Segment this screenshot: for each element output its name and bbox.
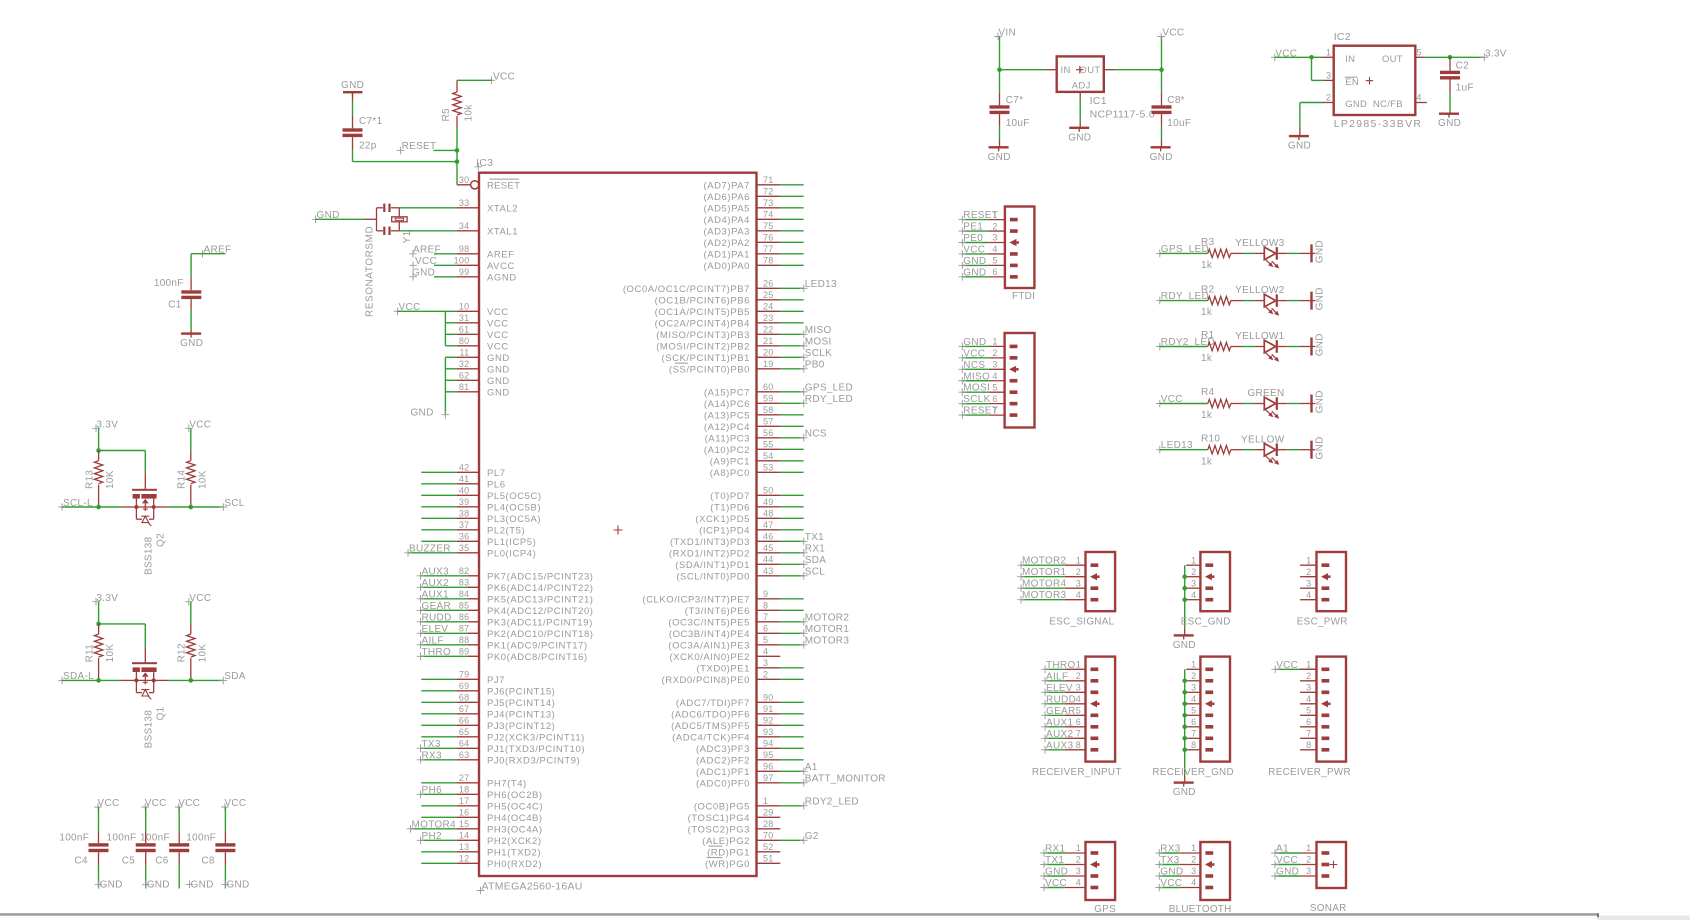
wire — [780, 724, 803, 726]
svg-text:VCC: VCC — [1276, 660, 1298, 671]
svg-text:IC1: IC1 — [1090, 95, 1107, 107]
node GEAR label and wire — [417, 601, 468, 614]
svg-text:PH7(T4): PH7(T4) — [487, 779, 527, 790]
junction — [1159, 67, 1164, 72]
svg-text:(RD)PG1: (RD)PG1 — [707, 848, 750, 859]
RECEIVER_PWR pin 2 — [1300, 671, 1329, 683]
svg-text:44: 44 — [763, 554, 774, 564]
connector ESC_PWR box — [1317, 552, 1347, 611]
svg-text:RESET: RESET — [963, 210, 998, 221]
svg-text:MOSI: MOSI — [805, 337, 832, 348]
svg-text:MOTOR4: MOTOR4 — [1022, 579, 1067, 590]
svg-text:(ADC1)PF1: (ADC1)PF1 — [696, 767, 750, 778]
FTDI pin 2 — [988, 221, 1018, 233]
svg-text:GEAR: GEAR — [1046, 706, 1076, 717]
wire — [1278, 346, 1300, 348]
svg-text:67: 67 — [459, 704, 470, 714]
svg-text:3: 3 — [992, 233, 997, 243]
svg-text:6: 6 — [1191, 717, 1196, 727]
svg-text:(ADC7/TDI)PF7: (ADC7/TDI)PF7 — [676, 698, 750, 709]
svg-text:4: 4 — [1191, 694, 1196, 704]
svg-text:Y1: Y1 — [402, 231, 413, 244]
resistor R 10K right — [177, 451, 209, 508]
svg-text:PL2(T5): PL2(T5) — [487, 526, 525, 537]
wire — [421, 494, 456, 496]
RECEIVER_PWR pin 6 — [1300, 717, 1329, 729]
svg-text:100: 100 — [454, 255, 470, 265]
wire VIN down — [999, 37, 1001, 70]
wire R5 to pin 30 — [456, 127, 458, 185]
svg-text:5: 5 — [1306, 706, 1311, 716]
svg-text:1: 1 — [1306, 660, 1311, 670]
svg-text:20: 20 — [763, 347, 774, 357]
svg-text:PK1(ADC9/PCINT17): PK1(ADC9/PCINT17) — [487, 641, 588, 652]
svg-text:GND: GND — [963, 337, 986, 348]
power VCC (top, R5) — [488, 72, 515, 85]
svg-text:30: 30 — [459, 175, 470, 185]
IC3 pin 94 (ADC3)PF3 — [696, 738, 780, 755]
svg-text:C7*1: C7*1 — [359, 116, 383, 127]
svg-text:32: 32 — [459, 359, 470, 369]
RECEIVER_INPUT pin 4 — [1065, 694, 1100, 707]
svg-text:4: 4 — [992, 244, 997, 254]
node VCC label and wire — [1271, 660, 1317, 673]
wire — [780, 230, 803, 232]
resistor R 10K left — [84, 451, 116, 508]
power VCC (C6) — [175, 798, 200, 811]
svg-text:C2: C2 — [1456, 60, 1470, 71]
capacitor C8* 10uF — [1152, 70, 1192, 129]
svg-text:4: 4 — [992, 371, 997, 381]
ground GND label (resonator) — [312, 210, 365, 223]
wire — [1278, 449, 1300, 451]
IC3 origin cross — [614, 526, 623, 535]
svg-text:45: 45 — [763, 543, 774, 553]
svg-text:PK0(ADC8/PCINT16): PK0(ADC8/PCINT16) — [487, 652, 588, 663]
svg-text:PK6(ADC14/PCINT22): PK6(ADC14/PCINT22) — [487, 583, 594, 594]
wire — [780, 713, 803, 715]
svg-text:5: 5 — [1191, 706, 1196, 716]
svg-text:10uF: 10uF — [1167, 118, 1191, 129]
svg-text:1k: 1k — [1201, 353, 1213, 364]
GPS pin 3 — [1065, 866, 1098, 878]
IC3 pin 89 PK0(ADC8/PCINT16) — [459, 646, 588, 663]
svg-text:SCL: SCL — [805, 567, 825, 578]
svg-text:1: 1 — [1076, 660, 1081, 670]
svg-text:PL4(OC5B): PL4(OC5B) — [487, 503, 541, 514]
svg-text:80: 80 — [459, 336, 470, 346]
wire — [780, 264, 803, 266]
wire cap to GND — [224, 852, 226, 888]
IC3 pin 85 PK4(ADC12/PCINT20) — [459, 600, 594, 617]
BLUETOOTH pin 1 — [1180, 843, 1213, 855]
svg-text:19: 19 — [763, 359, 774, 369]
svg-text:(SDA/INT1)PD1: (SDA/INT1)PD1 — [675, 560, 750, 571]
IC3 pin 12 PH0(RXD2) — [456, 853, 542, 870]
IC3 pin 90 (ADC7/TDI)PF7 — [676, 692, 780, 709]
IC3 pin 87 PK2(ADC10/PCINT18) — [459, 623, 594, 640]
LED YELLOW3 — [1235, 238, 1284, 269]
RECEIVER_INPUT pin 6 — [1065, 717, 1098, 729]
IC3 pin 99 AGND — [456, 267, 516, 284]
svg-text:PH6(OC2B): PH6(OC2B) — [487, 790, 543, 801]
svg-text:RESET: RESET — [487, 181, 520, 192]
wire mosfet to right — [154, 679, 191, 681]
IC2 pin 4 NC/FB stub — [1415, 93, 1427, 103]
svg-text:RX3: RX3 — [422, 751, 442, 762]
svg-text:IN: IN — [1345, 54, 1355, 65]
svg-text:(A13)PC5: (A13)PC5 — [704, 411, 750, 422]
connector SONAR box — [1317, 842, 1347, 888]
svg-text:(TOSC2)PG3: (TOSC2)PG3 — [688, 825, 750, 836]
svg-text:R2: R2 — [1201, 284, 1215, 295]
svg-text:16: 16 — [459, 807, 470, 817]
IC3 pin 65 PJ2(XCK3/PCINT11) — [456, 727, 585, 744]
ground GND (ESC_GND) — [1173, 628, 1196, 651]
svg-text:GND: GND — [487, 353, 510, 364]
svg-text:100nF: 100nF — [154, 278, 184, 289]
svg-text:2: 2 — [1191, 567, 1196, 577]
IC3 pin 42 PL7 — [456, 462, 505, 479]
RECEIVER_INPUT name label — [1032, 767, 1122, 778]
junction — [189, 505, 194, 510]
resistor R5 10k — [441, 92, 475, 127]
node RUDD label and wire — [417, 613, 468, 626]
wire — [352, 93, 354, 128]
svg-text:(A12)PC4: (A12)PC4 — [704, 422, 750, 433]
node AUX1 label and wire — [417, 590, 468, 603]
resistor R3 1k — [1201, 237, 1243, 271]
ground GND (rotated) — [1300, 333, 1326, 356]
svg-text:82: 82 — [459, 566, 470, 576]
IC3 pin 79 PJ7 — [456, 669, 505, 686]
svg-text:RUDD: RUDD — [1046, 694, 1076, 705]
svg-text:PL0(ICP4): PL0(ICP4) — [487, 549, 536, 560]
wire RECEIVER_GND ground bus — [1182, 669, 1187, 775]
node MOTOR3 label and wire — [1017, 590, 1066, 603]
svg-text:81: 81 — [459, 382, 470, 392]
IC3 pin 56 (A11)PC3 — [705, 428, 781, 445]
svg-text:YELLOW3: YELLOW3 — [1235, 238, 1284, 249]
svg-text:10K: 10K — [105, 644, 116, 663]
svg-text:(OC3A/AIN1)PE3: (OC3A/AIN1)PE3 — [668, 641, 750, 652]
svg-text:25: 25 — [763, 290, 774, 300]
RECEIVER_PWR pin 3 — [1300, 683, 1329, 695]
svg-text:MOSI: MOSI — [963, 383, 990, 394]
wire — [421, 678, 456, 680]
wire — [780, 494, 803, 496]
svg-text:92: 92 — [763, 715, 774, 725]
svg-text:R14: R14 — [177, 470, 188, 489]
svg-text:(TXD0)PE1: (TXD0)PE1 — [696, 664, 750, 675]
node TX3 label and wire — [417, 739, 457, 752]
node ELEV label and wire — [417, 624, 468, 637]
svg-text:2: 2 — [1191, 855, 1196, 865]
svg-text:7: 7 — [763, 612, 768, 622]
IC2 pin number 3 — [1326, 71, 1331, 81]
svg-text:(OC1B/PCINT6)PB6: (OC1B/PCINT6)PB6 — [655, 296, 750, 307]
svg-text:AILF: AILF — [422, 636, 444, 647]
ground GND (C2) — [1438, 113, 1461, 130]
IC3 pin 29 (TOSC1)PG4 — [688, 807, 781, 824]
GPS name label — [1094, 904, 1116, 915]
ESC_PWR pin 3 — [1300, 578, 1329, 590]
wire — [421, 483, 456, 485]
svg-text:13: 13 — [459, 842, 470, 852]
ESC_SIGNAL name label — [1049, 616, 1114, 627]
svg-text:100nF: 100nF — [59, 833, 89, 844]
svg-text:68: 68 — [459, 692, 470, 702]
connector RECEIVER_INPUT box — [1086, 657, 1116, 762]
svg-text:(AD7)PA7: (AD7)PA7 — [704, 181, 750, 192]
svg-text:VCC: VCC — [1276, 855, 1298, 866]
wire IC1 OUT to VCC — [1104, 69, 1162, 71]
svg-text:GND: GND — [412, 268, 435, 279]
svg-text:AREF: AREF — [487, 250, 515, 261]
IC3 pin 57 (A12)PC4 — [704, 416, 780, 433]
svg-text:6: 6 — [992, 267, 997, 277]
resistor R 10K right — [177, 624, 209, 681]
svg-text:83: 83 — [459, 577, 470, 587]
connector RECEIVER_PWR box — [1317, 657, 1347, 762]
svg-text:VCC: VCC — [189, 593, 211, 604]
node RESET label and wire — [397, 141, 457, 154]
svg-text:YELLOW: YELLOW — [1241, 434, 1285, 445]
svg-text:NC/FB: NC/FB — [1373, 99, 1403, 110]
svg-text:76: 76 — [763, 232, 774, 242]
svg-text:C6: C6 — [155, 856, 169, 867]
svg-text:GND: GND — [1345, 99, 1367, 110]
connector ESC_SIGNAL box — [1086, 552, 1116, 611]
svg-text:IN: IN — [1061, 65, 1071, 76]
svg-text:53: 53 — [763, 462, 774, 472]
wire VCC to IC2 EN pin 3 — [1312, 57, 1334, 80]
node SCLK label and wire — [780, 348, 832, 361]
power VCC (C8) — [221, 798, 246, 811]
svg-text:2: 2 — [992, 221, 997, 231]
IC3 pin 33 XTAL2 — [456, 198, 518, 215]
GPS pin 2 — [1065, 855, 1100, 868]
svg-text:1: 1 — [1191, 843, 1196, 853]
svg-text:4: 4 — [1306, 590, 1311, 600]
header pin 5 — [989, 382, 1018, 394]
svg-text:AUX3: AUX3 — [422, 567, 449, 578]
svg-text:(ADC0)PF0: (ADC0)PF0 — [696, 779, 750, 790]
svg-text:FTDI: FTDI — [1012, 291, 1035, 302]
svg-text:(AD4)PA4: (AD4)PA4 — [704, 215, 750, 226]
svg-text:MOTOR3: MOTOR3 — [1022, 590, 1067, 601]
svg-text:31: 31 — [459, 313, 470, 323]
IC3 pin 55 (A10)PC2 — [704, 439, 780, 456]
svg-text:37: 37 — [459, 520, 470, 530]
svg-text:2: 2 — [1076, 671, 1081, 681]
resistor R2 1k — [1201, 284, 1243, 318]
svg-text:GND: GND — [988, 152, 1011, 163]
svg-text:GND: GND — [487, 376, 510, 387]
svg-text:(MISO/PCINT3)PB3: (MISO/PCINT3)PB3 — [656, 330, 750, 341]
wire — [780, 517, 803, 519]
svg-text:7: 7 — [1306, 729, 1311, 739]
svg-text:GND: GND — [226, 880, 249, 891]
svg-text:10K: 10K — [197, 470, 208, 489]
svg-text:4: 4 — [1191, 590, 1196, 600]
svg-text:3.3V: 3.3V — [1485, 48, 1507, 59]
svg-text:PE1: PE1 — [963, 222, 983, 233]
node RESET label and wire — [959, 210, 999, 223]
wire — [780, 460, 803, 462]
svg-text:6: 6 — [1076, 717, 1081, 727]
svg-text:SCL: SCL — [224, 498, 244, 509]
node LED13 label and wire — [780, 279, 837, 292]
ground GND (IC2) — [1288, 135, 1311, 152]
header pin 2 — [989, 348, 1018, 360]
svg-text:56: 56 — [763, 428, 774, 438]
node GND label and wire — [1271, 867, 1300, 880]
svg-text:(AD1)PA1: (AD1)PA1 — [704, 250, 750, 261]
svg-text:63: 63 — [459, 750, 470, 760]
IC3 pin 62 GND — [456, 370, 509, 387]
RECEIVER_GND pin 5 — [1186, 706, 1213, 718]
wire — [1243, 449, 1255, 451]
svg-text:VCC: VCC — [963, 348, 985, 359]
svg-text:Q2: Q2 — [156, 533, 167, 547]
svg-text:15: 15 — [459, 819, 470, 829]
svg-text:(ICP1)PD4: (ICP1)PD4 — [699, 526, 750, 537]
svg-text:PH6: PH6 — [422, 785, 442, 796]
svg-text:(SCK/PCINT1)PB1: (SCK/PCINT1)PB1 — [662, 353, 751, 364]
svg-text:70: 70 — [763, 830, 774, 840]
svg-text:GND: GND — [963, 256, 986, 267]
svg-text:TX3: TX3 — [422, 739, 441, 750]
power VCC (IC3 supply bus) — [394, 302, 421, 315]
RECEIVER_PWR pin 4 — [1300, 694, 1330, 707]
svg-text:RX3: RX3 — [1160, 844, 1180, 855]
svg-text:(T3/INT6)PE6: (T3/INT6)PE6 — [685, 606, 750, 617]
RECEIVER_INPUT pin 7 — [1065, 729, 1098, 741]
svg-text:PJ3(PCINT12): PJ3(PCINT12) — [487, 721, 555, 732]
svg-text:RESET: RESET — [963, 406, 998, 417]
svg-text:3: 3 — [1306, 578, 1311, 588]
IC3 pin 25 (OC1B/PCINT6)PB6 — [655, 290, 781, 307]
wire resonator to XTAL2 — [399, 207, 456, 209]
svg-text:PK5(ADC13/PCINT21): PK5(ADC13/PCINT21) — [487, 595, 594, 606]
IC3 pin 40 PL5(OC5C) — [456, 485, 541, 502]
IC3 pin 16 PH4(OC4B) — [456, 807, 542, 824]
FTDI pin 5 — [988, 256, 1018, 268]
svg-text:6: 6 — [992, 394, 997, 404]
svg-text:C5: C5 — [122, 856, 136, 867]
node SDA label and wire — [191, 671, 246, 684]
IC3 pin 7 (OC3C/INT5)PE5 — [668, 612, 780, 629]
IC3 pin 6 (OC3B/INT4)PE4 — [669, 623, 780, 640]
ESC_SIGNAL pin 3 — [1065, 578, 1098, 590]
svg-text:PH0(RXD2): PH0(RXD2) — [487, 859, 542, 870]
node SDA-L label and wire — [58, 671, 98, 684]
svg-text:GND: GND — [341, 80, 364, 91]
svg-text:(SCL/INT0)PD0: (SCL/INT0)PD0 — [676, 572, 750, 583]
junction — [1448, 55, 1453, 60]
svg-text:3: 3 — [1076, 578, 1081, 588]
svg-text:1: 1 — [1306, 843, 1311, 853]
IC3 pin 36 PL1(ICP5) — [456, 531, 536, 548]
node RX3 label and wire — [417, 751, 457, 764]
svg-text:1: 1 — [763, 796, 768, 806]
node RUDD label and wire — [1041, 694, 1076, 707]
svg-text:NCS: NCS — [963, 360, 985, 371]
node MOTOR2 label and wire — [780, 613, 849, 626]
node VCC label and wire — [1040, 878, 1067, 891]
svg-text:2: 2 — [763, 669, 768, 679]
svg-text:VCC: VCC — [963, 244, 985, 255]
svg-text:RUDD: RUDD — [422, 613, 452, 624]
ESC_GND pin 2 — [1186, 567, 1214, 580]
wire — [780, 322, 803, 324]
node MOTOR1 label and wire — [780, 624, 849, 637]
svg-text:84: 84 — [459, 589, 470, 599]
svg-text:3: 3 — [1076, 683, 1081, 693]
wire resonator to XTAL1 — [399, 230, 456, 232]
svg-text:ELEV: ELEV — [422, 624, 449, 635]
power VCC (IC1 out) — [1157, 27, 1184, 69]
svg-text:Q1: Q1 — [156, 706, 167, 720]
IC3 pin 60 (A15)PC7 — [704, 382, 780, 399]
wire to mosfet — [99, 506, 137, 508]
svg-text:ESC_SIGNAL: ESC_SIGNAL — [1049, 616, 1114, 627]
svg-text:74: 74 — [763, 209, 774, 219]
RECEIVER_PWR name label — [1268, 767, 1351, 778]
svg-text:PK2(ADC10/PCINT18): PK2(ADC10/PCINT18) — [487, 629, 594, 640]
node MOSI label and wire — [959, 383, 991, 396]
svg-text:2: 2 — [1306, 855, 1311, 865]
node GND label and wire — [959, 267, 989, 280]
wire — [780, 529, 803, 531]
node PB0 label and wire — [780, 360, 824, 373]
svg-text:59: 59 — [763, 393, 774, 403]
svg-text:RESONATORSMD: RESONATORSMD — [365, 226, 376, 317]
LED GREEN — [1247, 388, 1284, 419]
svg-text:SONAR: SONAR — [1310, 903, 1347, 914]
IC IC3 ATMEGA2560-16AU box — [479, 173, 757, 876]
svg-text:GND: GND — [1068, 132, 1091, 143]
svg-text:1: 1 — [1191, 660, 1196, 670]
IC3 pin 8 (T3/INT6)PE6 — [685, 600, 781, 617]
wire — [780, 747, 803, 749]
IC3 pin 72 (AD6)PA6 — [704, 186, 781, 203]
IC3 pin 88 PK1(ADC9/PCINT17) — [459, 635, 588, 652]
node PH2 label and wire — [417, 831, 457, 844]
node VCC label and wire — [959, 244, 989, 257]
svg-text:C8: C8 — [201, 856, 215, 867]
node VCC label and wire — [409, 256, 456, 269]
resonator Y1 RESONATORSMD — [365, 204, 414, 317]
svg-text:62: 62 — [459, 370, 470, 380]
RECEIVER_PWR pin 5 — [1300, 706, 1329, 718]
wire VCC to R — [190, 602, 192, 624]
svg-text:35: 35 — [459, 543, 470, 553]
svg-text:46: 46 — [763, 531, 774, 541]
connector BLUETOOTH box — [1200, 842, 1230, 900]
wire — [1243, 346, 1255, 348]
svg-text:AUX2: AUX2 — [1046, 729, 1073, 740]
svg-text:98: 98 — [459, 244, 470, 254]
wire — [780, 253, 803, 255]
svg-text:(ADC3)PF3: (ADC3)PF3 — [696, 744, 750, 755]
svg-text:THRO: THRO — [1046, 660, 1076, 671]
node THRO label and wire — [417, 647, 468, 660]
RECEIVER_GND pin 3 — [1186, 683, 1213, 695]
junction — [1309, 55, 1314, 60]
svg-text:22p: 22p — [359, 141, 377, 152]
